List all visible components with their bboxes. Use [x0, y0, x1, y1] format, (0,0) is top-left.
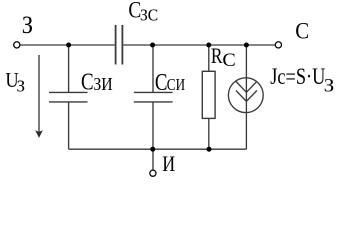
svg-text:Jс=S·U: Jс=S·U: [270, 64, 325, 89]
svg-text:C: C: [222, 50, 235, 71]
svg-text:ЗИ: ЗИ: [93, 74, 112, 94]
svg-text:С: С: [155, 70, 168, 96]
svg-text:З: З: [22, 12, 33, 39]
svg-text:СИ: СИ: [167, 75, 185, 94]
svg-text:С: С: [81, 69, 94, 95]
svg-text:R: R: [211, 43, 223, 68]
svg-text:ЗС: ЗС: [140, 6, 158, 25]
svg-text:С: С: [295, 18, 309, 43]
svg-text:И: И: [162, 151, 175, 176]
svg-text:З: З: [17, 77, 26, 96]
svg-text:З: З: [324, 76, 335, 97]
